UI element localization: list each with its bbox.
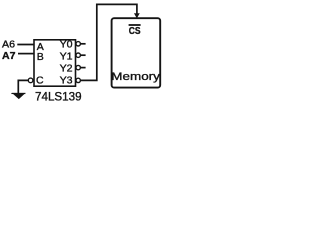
svg-text:B: B: [37, 51, 44, 63]
svg-text:C: C: [36, 74, 44, 86]
svg-text:Memory: Memory: [111, 71, 160, 83]
svg-text:CS: CS: [129, 26, 141, 37]
svg-text:74LS139: 74LS139: [35, 90, 82, 104]
svg-text:Y3: Y3: [60, 75, 73, 87]
svg-text:Y0: Y0: [60, 38, 73, 50]
svg-text:A7: A7: [2, 51, 16, 62]
svg-text:Y1: Y1: [60, 51, 73, 63]
svg-text:Y2: Y2: [60, 63, 73, 75]
svg-text:A6: A6: [2, 40, 15, 51]
